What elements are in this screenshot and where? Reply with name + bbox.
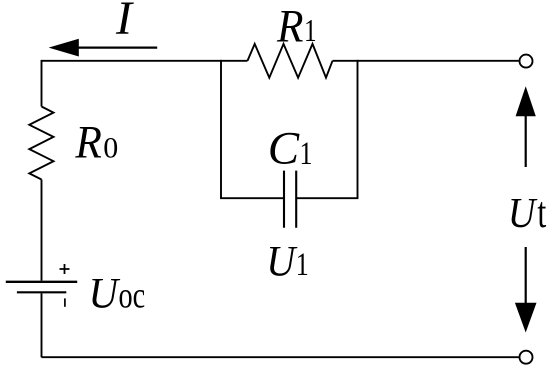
node terminal bottom-right circle xyxy=(520,351,533,364)
battery Uoc short plate xyxy=(17,291,66,293)
wire left vertical upper xyxy=(41,60,43,107)
svg-text:I: I xyxy=(115,0,134,45)
capacitor C1 plates xyxy=(284,171,296,228)
svg-text:0: 0 xyxy=(103,132,118,165)
wire parallel-loop right vertical xyxy=(357,60,359,198)
wire bottom horizontal xyxy=(42,356,519,358)
wire parallel-loop bottom left xyxy=(220,197,284,199)
resistor R0 xyxy=(29,107,53,180)
svg-text:R: R xyxy=(74,117,101,169)
voltage arrow Ut down xyxy=(525,247,527,305)
wire parallel-loop left vertical xyxy=(220,60,222,198)
voltage arrow Ut up xyxy=(525,114,527,167)
svg-text:U: U xyxy=(508,191,538,237)
node terminal top-right circle xyxy=(520,55,533,68)
wire top horizontal right segment xyxy=(333,60,519,62)
wire top horizontal left segment xyxy=(42,60,248,62)
svg-text:1: 1 xyxy=(296,247,309,283)
svg-text:1: 1 xyxy=(300,136,313,172)
battery minus tick xyxy=(64,298,66,306)
wire parallel-loop bottom right xyxy=(296,197,358,199)
battery Uoc long plate xyxy=(6,281,77,283)
svg-text:oc: oc xyxy=(119,276,146,317)
svg-text:U: U xyxy=(266,239,298,286)
svg-text:R: R xyxy=(276,0,303,52)
wire left vertical middle xyxy=(41,180,43,281)
current arrow I xyxy=(76,46,157,48)
battery plus sign xyxy=(60,264,70,274)
svg-text:C: C xyxy=(268,123,300,175)
wire left vertical lower xyxy=(41,293,43,357)
resistor R1 xyxy=(248,44,333,78)
svg-text:t: t xyxy=(537,188,546,237)
svg-text:U: U xyxy=(89,270,121,318)
svg-text:1: 1 xyxy=(304,12,317,48)
